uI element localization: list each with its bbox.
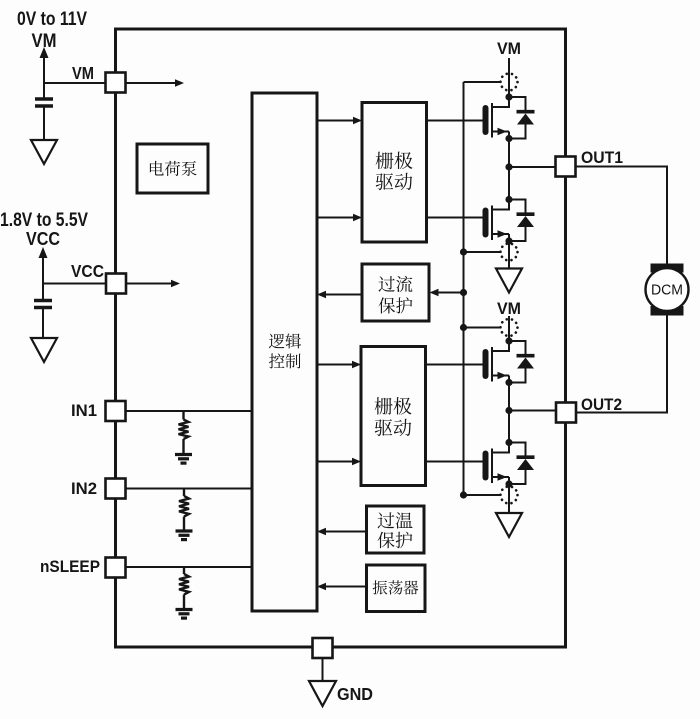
svg-text:VM: VM [497,39,521,58]
wire rail to sense 3 [464,327,502,329]
pin VM [106,73,126,93]
resistor R1 (IN1 pulldown) [182,411,184,420]
transistor Q1 (high-side 1) [483,97,510,139]
wire logic to gate drive 2 (low) [317,461,353,463]
wire VM into chip with arrow [126,82,177,84]
current sense element 3 (dashed) [501,319,518,336]
wire nSLEEP to logic [126,566,253,568]
resistor R2 (IN2 pulldown) [183,489,185,497]
wire Q2 source to ground [508,241,510,269]
wire OUT1 to motor [576,167,668,264]
node rail-sense2 junction [460,248,467,255]
wire OUT2 node to Q4 drain [508,411,510,443]
wire logic to gate drive 1 (low) [317,217,354,219]
svg-text:GND: GND [337,684,373,704]
current sense element 4 (dashed) [501,487,518,504]
capacitor C1 [43,83,45,98]
svg-text:VM: VM [72,63,94,83]
body diode D1 [509,97,535,139]
transistor Q3 (high-side 2) drain node [505,337,512,344]
wire Q4 source to ground [508,484,510,513]
node OUT2 [505,407,512,414]
wire OUT1 node to pin [509,166,556,168]
block: overtemperature protection (过温保护) [367,506,425,553]
ground (bridge 2) [496,513,522,537]
transistor Q2 (low-side 1) source node [505,237,512,244]
transistor Q4 (low-side 2) drain node [505,439,512,446]
transistor Q3 (high-side 2) source node [505,379,512,386]
current sense element 1 (dashed) [501,74,518,91]
chip boundary U1 DRV8837 [116,29,566,647]
wire VM supply to pin [44,82,106,84]
node OUT1 [505,163,512,170]
wire VCC supply to pin [43,283,106,285]
svg-text:VM: VM [497,299,521,318]
pin IN1 [106,401,126,421]
wire oscillator to logic (arrow) [325,586,367,588]
current sense element 2 (dashed) [501,244,518,261]
transistor Q2 (low-side 1) [483,200,510,242]
body diode D4 [509,443,535,485]
svg-text:VCC: VCC [71,261,104,281]
transistor Q4 (low-side 2) source node [505,480,512,487]
wire rail to sense 1 [464,81,502,83]
capacitor C2 [42,284,44,300]
wire gate drive 2 to Q4 gate [426,461,483,463]
wire Q3 source to OUT2 node [508,383,510,411]
pin GND [313,638,333,658]
transistor Q2 (low-side 1) drain node [505,196,512,203]
wire OCP to logic (arrow) [325,294,362,296]
wire rail to sense 4 [464,494,502,496]
wire VM to sense 3 [508,316,510,341]
svg-text:DCM: DCM [651,282,683,299]
svg-text:0V to 11V: 0V to 11V [17,8,87,30]
transistor Q1 (high-side 1) drain node [505,93,512,100]
block: overcurrent protection (过流保护) [362,264,429,321]
pin OUT2 [556,403,576,423]
svg-text:IN1: IN1 [71,401,97,420]
pin IN2 [106,479,126,499]
transistor Q1 (high-side 1) source node [505,135,512,142]
wire OUT2 node to pin [509,410,556,412]
body diode D2 [509,200,535,242]
motor M1 (DCM) [651,264,684,273]
wire gate drive 1 to Q1 gate [427,120,483,122]
svg-text:IN2: IN2 [71,479,97,498]
wire VCC into chip with arrow [126,283,172,285]
node rail-sense4 junction [460,491,467,498]
wire OTP to logic (arrow) [325,531,367,533]
node rail-sense3 junction [460,324,467,331]
wire VM to sense 1 [508,58,510,97]
block: logic control (逻辑控制) [252,93,317,611]
wire OUT2 to motor [576,316,667,413]
svg-text:VCC: VCC [26,228,60,249]
body diode D3 [509,341,535,383]
wire gate drive 1 to Q2 gate [427,217,483,219]
wire current-sense rail [463,82,465,495]
block: gate drive 2 (栅极驱动) [361,347,426,486]
wire GND pin to ground [322,658,324,681]
svg-text:nSLEEP: nSLEEP [40,557,100,576]
pin VCC [106,274,126,294]
supply arrow VCC [42,255,44,284]
transistor Q3 (high-side 2) [483,341,510,383]
wire Q1 source to OUT1 node [508,139,510,168]
ground (bridge 1) [496,269,522,293]
ground (VM bulk cap) [31,140,57,164]
supply arrow VM [43,55,45,83]
pin nSLEEP [106,558,126,578]
pin OUT1 [556,157,576,177]
transistor Q4 (low-side 2) [483,443,510,485]
ground (R2) [176,529,193,532]
svg-text:OUT2: OUT2 [581,395,622,414]
ground (VCC bypass cap) [31,338,57,362]
node rail-OCP junction [460,289,467,296]
wire sense rail to OCP (arrow) [438,292,464,294]
wire rail to sense 2 [464,251,502,253]
block: oscillator (振荡器) [367,565,426,612]
wire IN2 to logic [126,488,253,490]
wire logic to gate drive 2 (high) [317,364,353,366]
svg-text:OUT1: OUT1 [581,148,623,167]
wire logic to gate drive 1 (high) [317,120,354,122]
wire OUT1 node to Q2 drain [508,167,510,200]
ground (GND pin) [309,681,336,706]
block: charge pump (电荷泵) [137,144,208,193]
wire gate drive 2 to Q3 gate [426,364,483,366]
ground (R3) [176,608,193,611]
ground (R1) [175,453,192,456]
resistor R3 (nSLEEP pulldown) [183,567,185,574]
block: gate drive 1 (栅极驱动) [362,103,427,243]
wire IN1 to logic [126,410,253,412]
